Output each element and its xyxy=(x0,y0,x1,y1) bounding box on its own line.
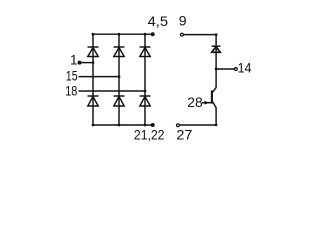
node junction bottom-col2 xyxy=(118,124,121,127)
wire terminal 18 lead xyxy=(79,90,146,92)
diode D6 lower column3 xyxy=(140,96,151,106)
node junction 14 xyxy=(215,68,218,71)
wire terminal 1 lead xyxy=(79,62,93,64)
svg-text:15: 15 xyxy=(66,68,78,83)
node terminal 4,5 dot xyxy=(151,32,155,36)
wire terminal 27 lead xyxy=(180,124,217,126)
diode D4 lower column1 xyxy=(88,96,99,106)
transistor Q1 xyxy=(202,87,216,107)
node junction line18-col3 xyxy=(144,90,147,93)
wire phase column 2 xyxy=(118,34,120,125)
node junction line15-col2 xyxy=(118,75,121,78)
wire right vertical upper (collector branch) xyxy=(215,35,217,88)
node terminal 21,22 dot xyxy=(151,123,155,127)
svg-text:4,5: 4,5 xyxy=(148,14,168,29)
node terminal 9 ring xyxy=(181,33,184,36)
diode D3 upper column3 xyxy=(140,47,151,57)
node terminal 14 ring xyxy=(235,68,238,71)
diode D7 exciter (small, right branch) xyxy=(212,46,221,52)
svg-text:27: 27 xyxy=(176,127,192,142)
wire terminal 9 lead xyxy=(184,34,217,36)
svg-text:1: 1 xyxy=(70,53,77,68)
svg-text:9: 9 xyxy=(179,13,187,29)
svg-text:18: 18 xyxy=(65,84,77,99)
wire terminal 14 lead xyxy=(216,68,234,70)
node corner 27-wire xyxy=(215,124,218,127)
node junction rail-col2 xyxy=(118,33,121,36)
node junction rail-col3 xyxy=(144,33,147,36)
wire phase column 3 xyxy=(144,34,146,125)
node terminal 27 ring xyxy=(177,124,180,127)
node junction rail-col1 xyxy=(92,33,95,36)
diode D1 upper column1 xyxy=(88,47,99,57)
node corner 9-wire xyxy=(215,33,218,36)
svg-text:14: 14 xyxy=(238,61,252,76)
node junction line1-col1 xyxy=(92,61,95,64)
svg-text:28: 28 xyxy=(187,95,203,110)
wire bottom rail (-) xyxy=(93,124,153,126)
node junction bottom-col1 xyxy=(92,124,95,127)
wire top rail (+) xyxy=(93,33,153,35)
wire phase column 1 xyxy=(92,34,94,125)
wire right vertical lower (emitter branch) xyxy=(215,108,217,126)
svg-text:21,22: 21,22 xyxy=(134,127,165,142)
node terminal 1 dot xyxy=(78,61,82,65)
wire terminal 15 lead xyxy=(79,76,120,78)
node junction bottom-col3 xyxy=(144,124,147,127)
diode D2 upper column2 xyxy=(114,47,125,57)
diode D5 lower column2 xyxy=(114,96,125,106)
